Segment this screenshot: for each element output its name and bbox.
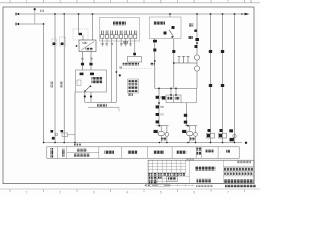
scale box bbox=[167, 176, 177, 181]
wire number ticks above legend bbox=[74, 144, 81, 146]
transformer secondary wires bbox=[83, 52, 92, 71]
lamp group B bbox=[182, 125, 197, 143]
bottom bus wire bbox=[43, 142, 248, 144]
control feed wire bbox=[85, 102, 119, 111]
bottom ruler numbers bbox=[26, 191, 229, 195]
top ruler numbers bbox=[26, 0, 252, 4]
ladder mid rail bbox=[184, 103, 187, 126]
ladder left rail bbox=[156, 88, 164, 125]
legend strip bbox=[47, 147, 239, 159]
fuse FU4 bbox=[89, 58, 92, 66]
relay module box bbox=[162, 88, 181, 102]
ASM2 feed stub bbox=[169, 14, 171, 17]
wire bus to transformer bbox=[92, 14, 94, 40]
svg-text:2: 2 bbox=[59, 0, 61, 4]
project name text bbox=[224, 179, 253, 183]
DC box left return wire bbox=[74, 92, 76, 143]
svg-text:3: 3 bbox=[93, 0, 95, 4]
drawing frame bbox=[3, 7, 254, 184]
bottom note text 2 bbox=[225, 184, 256, 187]
graphic scale bar bbox=[145, 184, 193, 186]
svg-text:6: 6 bbox=[193, 0, 195, 4]
feeder line 1 bbox=[207, 14, 215, 143]
svg-text:5: 5 bbox=[160, 191, 162, 195]
ASM2 internal contact bbox=[164, 26, 175, 38]
bottom note text 1 bbox=[196, 185, 213, 187]
DC output stubs bbox=[84, 92, 92, 102]
breaker QF1 bbox=[52, 39, 57, 46]
wire vertical x55 bbox=[54, 14, 56, 143]
fuse FU1 dashed enclosure bbox=[73, 29, 88, 40]
capacitor group bbox=[174, 57, 197, 64]
fuse FU3 bbox=[81, 58, 84, 66]
long drop wire to control bbox=[116, 39, 123, 103]
long drop wire to rectifier bbox=[133, 39, 136, 57]
revision text row bbox=[149, 173, 186, 176]
top ruler bbox=[0, 0, 260, 3]
title block frame bbox=[148, 160, 254, 183]
wire label column 2 bbox=[60, 82, 63, 88]
feeder line 3 bbox=[229, 14, 236, 143]
indicator lamp HL1 bbox=[194, 55, 199, 60]
signature cells bbox=[149, 177, 162, 184]
ASM2 right pin wire bbox=[172, 39, 175, 89]
ASM2 left pin wire bbox=[150, 39, 157, 89]
drawing title text bbox=[195, 167, 215, 171]
bottom ruler bbox=[0, 189, 260, 192]
svg-text:3: 3 bbox=[93, 191, 95, 195]
bus wire L- second bbox=[16, 23, 44, 26]
transformer TC bbox=[76, 40, 96, 52]
indicator lamp HL2 bbox=[194, 66, 199, 71]
sheet number note bbox=[237, 161, 251, 163]
control bus horizontal bbox=[155, 88, 197, 90]
PLC block ASM2 bbox=[150, 17, 182, 39]
svg-text:8: 8 bbox=[250, 0, 252, 4]
title block left grid bbox=[148, 160, 223, 183]
wire N vertical x43.5 bbox=[43, 24, 45, 143]
long drop wire parallel bbox=[111, 39, 113, 103]
terminal box XT0 bbox=[62, 133, 75, 137]
PLC block ASM1 bbox=[100, 18, 140, 42]
control line x197 bbox=[188, 14, 199, 88]
wire relay to mid rail bbox=[181, 88, 197, 102]
right cells characters bbox=[224, 168, 253, 171]
bus wire L+ top bbox=[16, 13, 250, 16]
svg-text:2: 2 bbox=[59, 191, 61, 195]
sheet count note bbox=[186, 158, 194, 161]
svg-text:7: 7 bbox=[227, 191, 229, 195]
svg-text:4: 4 bbox=[126, 0, 128, 4]
feeder line 2 bbox=[219, 14, 227, 143]
breaker QF2 bbox=[59, 37, 65, 46]
contact on x64 bottom bbox=[61, 130, 64, 132]
wire label column 1 bbox=[50, 82, 53, 88]
ASM1 terminal drop wires bbox=[102, 39, 130, 47]
contact on x55 bottom bbox=[51, 130, 58, 140]
wire fuse to transformer bbox=[82, 35, 84, 40]
right cells grid bbox=[223, 167, 253, 176]
svg-text:7: 7 bbox=[227, 0, 229, 4]
DC supply box bbox=[76, 70, 107, 92]
lamp group A bbox=[154, 125, 169, 143]
svg-text:1: 1 bbox=[26, 191, 28, 195]
fuse FU0 between buses bbox=[34, 8, 44, 24]
svg-text:1: 1 bbox=[26, 0, 28, 4]
wire vertical x64 bbox=[63, 14, 65, 143]
design unit text bbox=[197, 179, 212, 183]
svg-text:5: 5 bbox=[160, 0, 162, 4]
svg-text:6: 6 bbox=[193, 191, 195, 195]
right cells row2 marks bbox=[224, 173, 252, 175]
wire bus to fuse bbox=[78, 14, 80, 33]
legend texts bbox=[50, 148, 230, 158]
svg-text:4: 4 bbox=[126, 191, 128, 195]
junction dots on bus bbox=[54, 13, 235, 15]
ASM1 terminals bbox=[101, 31, 136, 35]
label a bbox=[123, 41, 128, 44]
terminal wire number labels bbox=[101, 43, 132, 45]
rectifier module bbox=[120, 57, 152, 69]
terminal strip stack bbox=[128, 79, 139, 96]
